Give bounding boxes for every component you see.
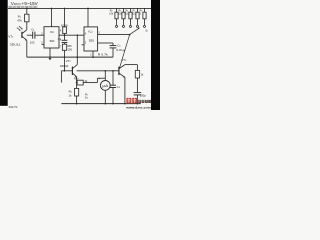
wire common mid rail [27,56,113,58]
svg-text:601: 601 [50,39,55,43]
node C4 junction [112,70,114,72]
wire base drop VT2 [64,57,66,71]
capacitor C4 [112,71,114,85]
background [0,0,160,110]
wire C5 to ground rail [136,95,138,104]
wire to C1 [27,34,33,36]
contact 2 [123,25,125,27]
wire rail to 1000 [64,8,66,26]
wire emitter to RP2 [76,82,79,84]
light arrows into VT1 [17,28,20,31]
svg-text:S1: S1 [145,30,148,33]
pin 2 IC2 stub [82,44,84,46]
wire bottom ground rail [61,103,140,105]
wire emitter to R6 [76,83,78,89]
resistor R6 [75,88,79,96]
left black border band [0,0,8,106]
capacitor C3 [110,45,117,47]
pin 3 stub [42,43,44,45]
wire C3 to common [112,48,114,57]
wire IC2 out to switch pivot [98,34,130,36]
wire 1000 to node [64,34,66,41]
svg-text:100μ: 100μ [140,93,146,97]
wire RP1 to common [64,50,66,57]
resistor R3 [123,8,125,12]
svg-text:103: 103 [30,41,35,45]
wire VT3 emitter down [124,77,126,103]
right black border band [151,0,160,110]
meter PA1 [100,81,110,91]
wire top VDD rail [8,7,151,9]
potentiometer RP1 [62,44,66,50]
svg-text:3DG6: 3DG6 [60,64,69,68]
wire IC1 top pin to rail [51,8,53,26]
resistor R4 [130,8,132,12]
svg-text:www.dzsc.com: www.dzsc.com [125,105,151,109]
phototransistor VT1 [21,32,23,38]
contact 1 [116,25,118,27]
capacitor C1 [32,32,34,39]
wire rail to R1 [26,8,28,14]
resistor R8 [135,70,139,78]
resistor R2 [116,8,118,12]
wire collector line to meter [77,70,113,72]
svg-text:100: 100 [68,47,73,51]
wire IC2 top pin to rail [87,8,89,26]
wire C1 to IC1 pin2 [35,34,44,36]
svg-text:R 0.7k: R 0.7k [98,54,109,57]
transistor VT3 [118,67,120,75]
wire meter to ground rail [104,90,106,103]
wire C2 to RP1 [64,43,66,45]
svg-text:100: 100 [125,13,130,16]
wire R6 to ground rail [76,96,78,104]
capacitor C5 [134,92,142,94]
wire node to mid vertical [76,35,78,64]
contact 3 [130,25,132,27]
wire IC1 bottom pin to common [49,48,51,57]
wire meter top [104,71,106,81]
resistor R6a [144,8,146,12]
svg-text:3DU11: 3DU11 [10,42,21,46]
svg-text:0.01μ: 0.01μ [116,48,125,52]
wire VT3 collector [125,64,137,66]
switch S1 wiper [129,34,131,36]
wire R8 to C5 [136,78,138,92]
svg-text:600,7K: 600,7K [9,105,18,109]
wire switch to VT3 base [119,35,130,71]
svg-text:VDD=+9~15V: VDD=+9~15V [11,1,38,6]
op-amp IC1 [44,27,59,48]
resistor R5 [137,8,139,12]
watermark red logo [126,98,150,103]
wire to VT3 base [113,70,119,72]
contact 4 [137,25,139,27]
wire RP2 to meter [83,82,97,84]
contact 5 [144,25,146,27]
wire IC1 out to IC2 in [59,34,84,36]
wire VT1 emitter down [26,40,28,57]
timer IC2 [84,27,98,51]
capacitor C2 [62,39,68,41]
wire VT2 emitter down [76,77,78,83]
svg-text:47k: 47k [17,18,22,22]
transistor VT2 [71,67,73,75]
wire R1 to VT1 collector [26,22,28,30]
svg-text:555: 555 [89,38,94,42]
wire IC2 bottom pin to common [92,51,94,57]
resistor R1 [25,14,29,22]
gray watermark bar top-left [8,6,38,9]
potentiometer RP2 [77,80,83,85]
wire IC2 to C3 [98,42,113,44]
node rail-R1 [26,8,28,10]
